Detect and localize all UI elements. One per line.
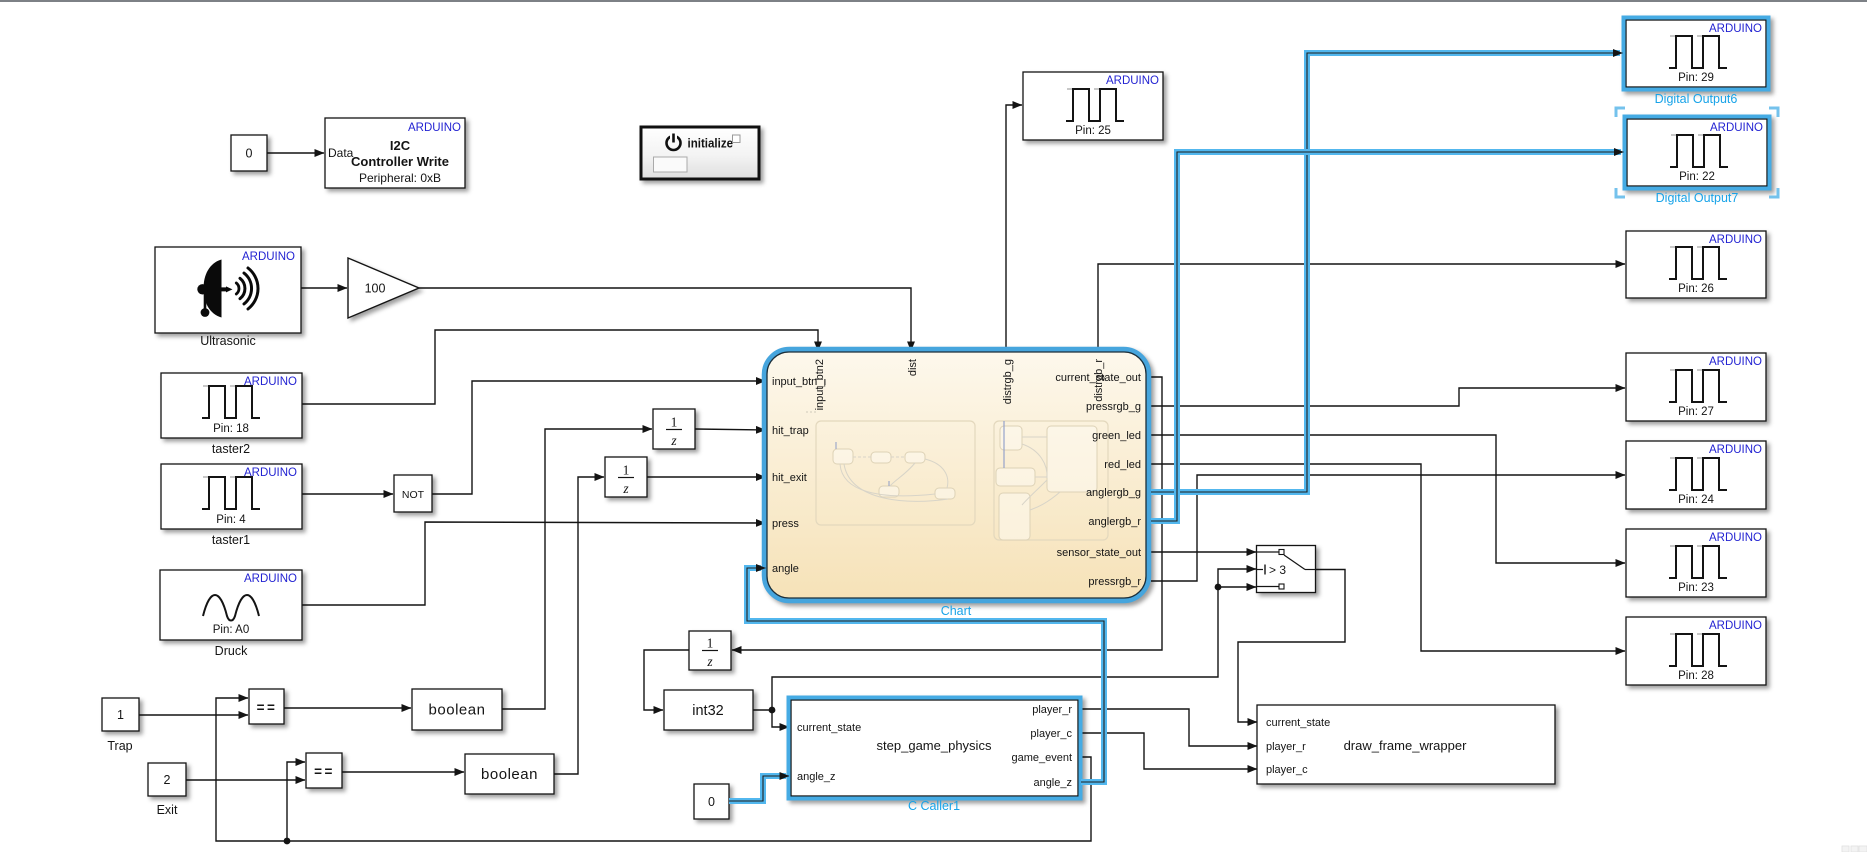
svg-text:hit_trap: hit_trap bbox=[772, 425, 809, 437]
Switch block bbox=[1257, 546, 1316, 593]
taster2 block (Pin 18) bbox=[161, 373, 302, 438]
corner widgets bbox=[1842, 846, 1867, 852]
svg-text:distrgb_g: distrgb_g bbox=[1002, 359, 1014, 404]
int32 block bbox=[664, 690, 753, 730]
svg-text:player_r: player_r bbox=[1032, 704, 1072, 716]
wire const0 to I2C Data bbox=[267, 152, 324, 154]
wire (highlighted) Chart anglergb_r to Pin22 bbox=[1151, 152, 1624, 521]
svg-text:Pin: 27: Pin: 27 bbox=[1678, 406, 1714, 418]
wire Chart pressrgb_g to Pin27 bbox=[1151, 388, 1625, 406]
svg-text:1: 1 bbox=[707, 636, 714, 651]
constant 0 (angle) bbox=[694, 784, 729, 819]
Ultrasonic block bbox=[155, 247, 301, 333]
svg-text:z: z bbox=[706, 654, 713, 669]
svg-text:Peripheral: 0xB: Peripheral: 0xB bbox=[359, 171, 441, 185]
initialize block bbox=[641, 127, 759, 179]
svg-text:z: z bbox=[670, 433, 677, 448]
svg-text:angle: angle bbox=[772, 563, 799, 575]
svg-text:Digital Output6: Digital Output6 bbox=[1655, 92, 1738, 106]
svg-text:Pin: A0: Pin: A0 bbox=[213, 624, 249, 636]
wire int32 to C Caller current_state bbox=[753, 710, 789, 727]
unit delay UD3 (mirrored) bbox=[689, 631, 731, 670]
svg-text:Exit: Exit bbox=[157, 803, 178, 817]
svg-text:0: 0 bbox=[246, 147, 253, 161]
svg-text:distrgb_r: distrgb_r bbox=[1093, 359, 1105, 402]
unit delay UD2 bbox=[605, 457, 647, 497]
wire UnitDelay1 to Chart hit_trap bbox=[695, 429, 766, 430]
svg-text:current_state: current_state bbox=[1266, 717, 1330, 729]
wire Exit to EQ2 bbox=[186, 779, 305, 781]
svg-text:boolean: boolean bbox=[481, 766, 538, 783]
chart top port labels (rotated) bbox=[814, 359, 1105, 411]
junction dot int32 output bbox=[769, 707, 776, 714]
constant 2 Exit bbox=[148, 763, 186, 796]
svg-text:Pin: 28: Pin: 28 bbox=[1678, 670, 1714, 682]
wire Chart current_state_out to UnitDelay3 bbox=[732, 377, 1162, 650]
taster1 block (Pin 4) bbox=[161, 464, 302, 529]
svg-text:pressrgb_g: pressrgb_g bbox=[1086, 401, 1141, 413]
unit delay UD1 bbox=[653, 409, 695, 449]
svg-text:ARDUINO: ARDUINO bbox=[408, 122, 461, 134]
svg-text:Pin: 24: Pin: 24 bbox=[1678, 494, 1714, 506]
chart inner mini statechart right panel bbox=[994, 421, 1108, 540]
svg-text:Ultrasonic: Ultrasonic bbox=[200, 334, 256, 348]
constant 1 Trap bbox=[102, 698, 139, 731]
I2C Controller Write block bbox=[325, 118, 465, 188]
wire UnitDelay2 to Chart hit_exit bbox=[647, 476, 766, 478]
Druck block (Pin A0) bbox=[160, 570, 302, 640]
dish icon bbox=[204, 260, 222, 318]
svg-text:red_led: red_led bbox=[1104, 459, 1141, 471]
wire EQ2 to boolean2 bbox=[342, 771, 464, 773]
svg-text:0: 0 bbox=[708, 795, 715, 809]
svg-text:ARDUINO: ARDUINO bbox=[1709, 532, 1762, 544]
svg-text:player_c: player_c bbox=[1030, 728, 1072, 740]
wire EQ1 to boolean1 bbox=[284, 707, 411, 709]
svg-text:angle_z: angle_z bbox=[1033, 777, 1072, 789]
svg-text:2: 2 bbox=[164, 773, 171, 787]
svg-text:ARDUINO: ARDUINO bbox=[244, 573, 297, 585]
selection corner brackets bbox=[1616, 108, 1778, 197]
svg-text:draw_frame_wrapper: draw_frame_wrapper bbox=[1344, 738, 1468, 753]
boolean1 block bbox=[412, 689, 502, 730]
svg-text:100: 100 bbox=[365, 282, 386, 296]
svg-text:step_game_physics: step_game_physics bbox=[877, 738, 992, 753]
wire UnitDelay3 to int32 bbox=[644, 650, 689, 710]
svg-text:Pin: 4: Pin: 4 bbox=[216, 514, 246, 526]
svg-text:==: == bbox=[257, 700, 278, 715]
top toolbar edge bbox=[0, 0, 1867, 2]
svg-text:ARDUINO: ARDUINO bbox=[1709, 356, 1762, 368]
boolean2 block bbox=[465, 754, 554, 794]
svg-text:green_led: green_led bbox=[1092, 430, 1141, 442]
svg-text:taster2: taster2 bbox=[212, 442, 250, 456]
svg-text:ARDUINO: ARDUINO bbox=[1709, 234, 1762, 246]
Pin29 block Digital Output6 (highlighted) bbox=[1624, 18, 1769, 90]
wire Switch to draw_frame_wrapper current_state bbox=[1238, 570, 1345, 723]
svg-text:ARDUINO: ARDUINO bbox=[1709, 23, 1762, 35]
svg-text:NOT: NOT bbox=[402, 489, 425, 501]
EQ1 == block bbox=[249, 689, 284, 724]
wire taster2 to Chart input_btn2 bbox=[302, 330, 818, 404]
svg-text:Pin: 22: Pin: 22 bbox=[1679, 171, 1715, 183]
svg-text:Trap: Trap bbox=[107, 739, 132, 753]
junction dot switch feed bbox=[1215, 584, 1222, 591]
svg-text:ARDUINO: ARDUINO bbox=[1106, 75, 1159, 87]
wire Chart green_led to Pin23 bbox=[1151, 435, 1625, 563]
wire Chart distrgb_r to Pin26 bbox=[1098, 264, 1625, 352]
wire Druck to Chart press bbox=[302, 522, 766, 605]
svg-text:z: z bbox=[622, 481, 629, 496]
wire Chart pressrgb_r to Pin24 bbox=[1151, 475, 1625, 581]
svg-text:Data: Data bbox=[328, 146, 354, 160]
svg-text:Digital Output7: Digital Output7 bbox=[1656, 191, 1739, 205]
wire player_c to draw_frame_wrapper bbox=[1078, 733, 1257, 769]
svg-text:Pin: 29: Pin: 29 bbox=[1678, 72, 1714, 84]
power icon bbox=[667, 136, 681, 150]
svg-text:int32: int32 bbox=[692, 703, 723, 719]
wire (highlighted) constant 0 to C Caller angle_z bbox=[729, 776, 789, 801]
Chart (Stateflow) block bbox=[765, 350, 1149, 601]
svg-text:> 3: > 3 bbox=[1269, 563, 1286, 577]
wire int32 branch to Switch control bbox=[772, 569, 1256, 710]
svg-text:player_r: player_r bbox=[1266, 741, 1306, 753]
wire (highlighted) C Caller angle_z loop to Chart angle bbox=[747, 568, 1104, 782]
wire NOT to Chart input_btn_r bbox=[432, 381, 766, 494]
svg-text:ARDUINO: ARDUINO bbox=[1709, 620, 1762, 632]
Pin27 block bbox=[1626, 353, 1766, 421]
junction dot bottom feedback bbox=[284, 838, 291, 845]
svg-text:1: 1 bbox=[623, 463, 630, 478]
svg-text:Pin: 23: Pin: 23 bbox=[1678, 582, 1714, 594]
svg-text:input_btn2: input_btn2 bbox=[814, 359, 826, 410]
svg-text:Pin: 18: Pin: 18 bbox=[213, 423, 249, 435]
svg-text:1: 1 bbox=[671, 415, 678, 430]
svg-text:initialize: initialize bbox=[688, 136, 734, 151]
wire boolean2 to UnitDelay2 bbox=[554, 477, 604, 774]
wire player_r to draw_frame_wrapper bbox=[1078, 709, 1257, 746]
svg-text:angle_z: angle_z bbox=[797, 771, 836, 783]
draw_frame_wrapper block bbox=[1257, 705, 1555, 784]
svg-text:press: press bbox=[772, 518, 799, 530]
Pin23 block bbox=[1626, 529, 1766, 597]
wire Chart distrgb_g to Pin25 bbox=[1006, 105, 1022, 352]
svg-text:Controller Write: Controller Write bbox=[351, 154, 449, 169]
chart inner mini statechart left panel bbox=[816, 421, 975, 525]
NOT block bbox=[394, 475, 432, 512]
svg-text:C Caller1: C Caller1 bbox=[908, 799, 960, 813]
wire switch data2 branch bbox=[1218, 586, 1256, 588]
Pin25 block bbox=[1023, 72, 1163, 140]
wire Gain to Chart dist bbox=[419, 288, 911, 351]
svg-text:Chart: Chart bbox=[941, 604, 972, 618]
svg-text:I2C: I2C bbox=[390, 138, 411, 153]
wire feedback branch to EQ2 bbox=[287, 762, 305, 841]
svg-text:taster1: taster1 bbox=[212, 533, 250, 547]
svg-text:Pin: 25: Pin: 25 bbox=[1075, 125, 1111, 137]
wire Chart sensor_state_out to Switch bbox=[1151, 551, 1256, 553]
svg-text:dist: dist bbox=[907, 359, 919, 376]
svg-text:game_event: game_event bbox=[1011, 752, 1072, 764]
Pin28 block bbox=[1626, 617, 1766, 685]
svg-text:player_c: player_c bbox=[1266, 764, 1308, 776]
Pin26 block bbox=[1626, 231, 1766, 298]
wire Chart red_led to Pin28 bbox=[1151, 464, 1625, 651]
wire (highlighted) Chart anglergb_g to Pin29 bbox=[1151, 53, 1623, 492]
svg-text:sensor_state_out: sensor_state_out bbox=[1057, 547, 1141, 559]
svg-text:hit_exit: hit_exit bbox=[772, 472, 807, 484]
svg-text:ARDUINO: ARDUINO bbox=[1709, 444, 1762, 456]
svg-text:Druck: Druck bbox=[215, 644, 248, 658]
svg-text:ARDUINO: ARDUINO bbox=[1710, 122, 1763, 134]
wire Ultrasonic to Gain bbox=[301, 287, 347, 289]
svg-text:Pin: 26: Pin: 26 bbox=[1678, 283, 1714, 295]
wire game_event feedback along bottom to EQ1 bbox=[216, 698, 1091, 841]
EQ2 == block bbox=[306, 753, 342, 788]
constant 0 (I2C data) bbox=[231, 135, 267, 171]
svg-text:anglergb_g: anglergb_g bbox=[1086, 487, 1141, 499]
wire Trap to EQ1 bbox=[139, 714, 248, 716]
svg-text:ARDUINO: ARDUINO bbox=[242, 251, 295, 263]
C Caller1 block bbox=[789, 698, 1081, 799]
wire taster1 to NOT bbox=[302, 493, 393, 495]
Pin22 block Digital Output7 (highlighted, selected) bbox=[1625, 117, 1770, 189]
svg-text:==: == bbox=[314, 764, 335, 779]
svg-text:1: 1 bbox=[117, 708, 124, 722]
svg-text:boolean: boolean bbox=[429, 702, 486, 719]
svg-text:pressrgb_r: pressrgb_r bbox=[1088, 576, 1141, 588]
svg-text:current_state: current_state bbox=[797, 722, 861, 734]
svg-text:anglergb_r: anglergb_r bbox=[1088, 516, 1141, 528]
wire boolean1 to UnitDelay1 bbox=[502, 429, 652, 709]
Gain 100 bbox=[348, 258, 419, 318]
Pin24 block bbox=[1626, 441, 1766, 509]
